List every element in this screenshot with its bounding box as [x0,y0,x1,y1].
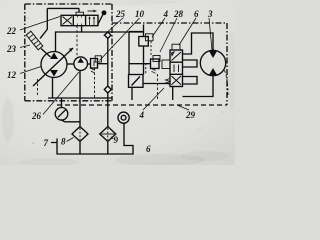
svg-text:29: 29 [185,110,196,120]
leader label 25 [104,18,124,36]
bottom-left valve 4 [129,75,144,88]
leader lines [20,17,212,142]
leader label 4 bottom [143,88,164,110]
return manifold [48,97,112,99]
filter 9 [100,127,116,142]
motor 3 [200,50,225,75]
valve 22 lever [98,14,104,25]
left pilot box of valve 6 [162,60,170,69]
leader label 26 [43,72,79,115]
valve 6 drain [172,87,174,101]
supply pipe to right block [82,31,144,33]
svg-text:4: 4 [163,9,169,19]
svg-text:6: 6 [146,144,151,154]
leader label 10 [100,18,140,61]
pump 12 circle [41,52,67,78]
valve 28 [151,59,160,69]
control cylinder 23 (hatched, inclined) [26,31,43,50]
link 23 to pump [41,49,51,58]
svg-text:26: 26 [31,111,42,121]
pump bottom line [52,78,54,99]
check valve diamond lower [104,86,111,93]
pump 12 variable arrow [33,48,73,86]
valve 22 centre ports [78,15,82,25]
svg-text:7: 7 [44,138,49,148]
svg-text:4: 4 [139,110,145,120]
check valve diamond upper [105,32,111,38]
leader label 22 [20,17,60,31]
wire charge pump to valve [88,63,91,65]
arrow above valve 22 [88,10,97,12]
drain dashed from valve 22 [76,26,78,57]
svg-text:22: 22 [6,26,17,36]
svg-text:8: 8 [61,137,66,147]
leader label 4 top [152,18,165,37]
valve 22 body [61,15,98,25]
valve 22 top pilot box [76,12,84,15]
pilot line to valve 22 [40,8,79,38]
valve 22 crossed arrows [63,17,73,25]
enclosure left dash-dot box [25,4,112,101]
valve outlet to supply line [98,63,108,65]
dashed drain [94,68,96,98]
spring of valve 6 [166,79,171,85]
motor drain dashed [225,71,229,98]
charge pump 26 [74,57,88,71]
svg-text:28: 28 [173,9,184,19]
svg-text:9: 9 [114,135,119,145]
charge pump suction [79,71,81,127]
leader label 8 [67,138,74,142]
boundary 29 dashed bottom line [57,104,227,106]
valve 6 to motor top [183,33,214,54]
leader label 12 [20,67,41,74]
tank 7 [51,123,133,154]
svg-text:10: 10 [135,9,145,19]
motor return [183,76,214,96]
svg-text:23: 23 [6,44,17,54]
scan noise [2,0,236,166]
pump top pipe [56,26,82,52]
leader label 9 [111,137,114,139]
charge relief valve [91,59,98,69]
valve 6 right loops [183,60,198,67]
svg-text:25: 25 [115,9,126,19]
valve 22 right section arrows [90,18,95,26]
breather double circle [118,112,129,123]
enclosure right dash-dot box [112,23,227,105]
svg-text:3: 3 [207,9,213,19]
leader label 23 [20,45,30,48]
pump 12 triangles [50,53,58,60]
filter 8 [72,127,88,142]
svg-text:12: 12 [7,70,17,80]
leader label 3 [209,18,212,50]
branch down to filter 9 [107,38,109,126]
leader label 6 top [179,18,196,45]
svg-text:6: 6 [194,9,199,19]
directional valve 6 [170,50,183,87]
top pilot box of valve 6 [172,44,180,50]
right block: valve 10 [139,37,149,47]
leader label 28 [160,18,177,52]
wire pump to charge pump [67,63,74,65]
pump case drain dashed [37,79,39,96]
gauge [55,108,68,121]
leader label 29 [177,105,189,110]
